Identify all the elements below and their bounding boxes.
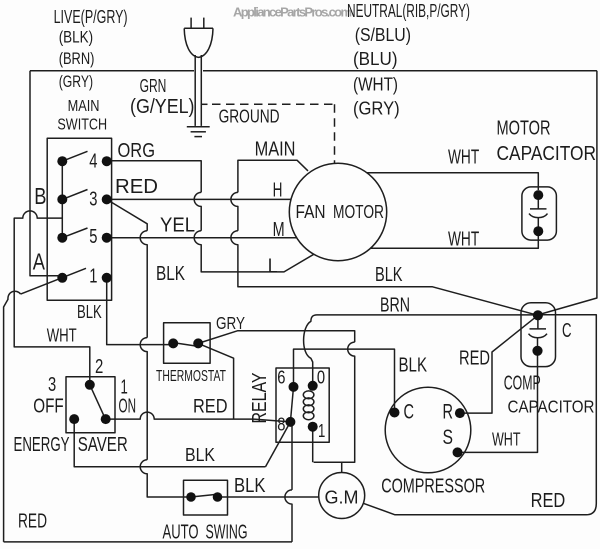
wire RED from switch 3 to motor H: [107, 198, 291, 200]
svg-text:(GRY): (GRY): [59, 72, 93, 91]
svg-text:B: B: [34, 183, 46, 209]
svg-text:BLK: BLK: [156, 263, 185, 285]
svg-text:NEUTRAL(RIB,P/GRY): NEUTRAL(RIB,P/GRY): [347, 1, 470, 21]
thermostat TH1 box: [164, 323, 211, 364]
node relay 0: [308, 381, 318, 391]
node thermostat left: [168, 338, 178, 348]
wire cord left conductor: [194, 55, 196, 126]
svg-text:YEL: YEL: [160, 214, 195, 236]
svg-text:G.M: G.M: [325, 487, 359, 508]
node switch B3: [57, 194, 67, 204]
svg-text:ORG: ORG: [118, 140, 156, 162]
wire MAIN lead from motor: [238, 160, 308, 192]
wire neutral tick: [201, 103, 207, 105]
svg-text:MOTOR: MOTOR: [333, 202, 384, 223]
svg-text:SWING: SWING: [206, 521, 248, 543]
capacitor C2 plates: [529, 319, 548, 347]
comp capacitor C2: [521, 303, 556, 367]
switch blade A (terminal 1) extended: [21, 268, 86, 294]
svg-text:(BLU): (BLU): [353, 49, 398, 69]
wire neutral dashed horizontal: [212, 103, 335, 105]
wire relay 8 riser hop over G.M wire: [285, 490, 292, 542]
svg-text:RED: RED: [193, 395, 228, 417]
wire RED compressor R to comp capacitor: [460, 315, 538, 413]
wire GRY node down to G.M: [341, 462, 343, 473]
svg-text:GROUND: GROUND: [219, 107, 280, 127]
node switch B4: [57, 156, 67, 166]
svg-text:MAIN: MAIN: [255, 138, 296, 160]
svg-text:BLK: BLK: [234, 475, 266, 497]
relay coil: [303, 391, 314, 420]
svg-text:RED: RED: [115, 176, 158, 198]
switch blade 4: [62, 151, 87, 161]
svg-text:COMP: COMP: [504, 372, 541, 394]
main switch S1 box: [47, 138, 111, 300]
node thermostat right: [193, 338, 203, 348]
svg-text:1: 1: [89, 266, 97, 288]
svg-text:3: 3: [48, 374, 56, 396]
node auto swing right: [213, 492, 223, 502]
svg-text:WHT: WHT: [448, 147, 479, 169]
relay RY1 box: [276, 368, 329, 442]
wire relay 8 riser down: [291, 423, 293, 490]
svg-text:BLK: BLK: [375, 264, 403, 286]
wire BLK from switch 3 diagonal: [107, 199, 148, 230]
node energy saver 1: [101, 414, 111, 424]
node auto swing left: [186, 492, 196, 502]
svg-text:MAIN: MAIN: [68, 98, 100, 115]
svg-text:S: S: [443, 426, 454, 449]
svg-text:BRN: BRN: [380, 294, 410, 316]
node relay 6: [289, 382, 299, 392]
node compressor C: [390, 408, 400, 418]
wire top border LIVE left segment: [30, 70, 194, 72]
node motor cap bottom: [533, 226, 543, 236]
compressor M2: [385, 387, 471, 473]
switch blade 5: [62, 228, 87, 238]
svg-text:RED: RED: [18, 510, 47, 532]
svg-text:(BLK): (BLK): [59, 27, 93, 46]
svg-text:2: 2: [95, 356, 103, 378]
capacitor C1 plates: [529, 199, 548, 228]
svg-text:H: H: [273, 179, 283, 201]
wire MAIN bus hop over RED: [231, 192, 238, 230]
motor capacitor C1: [522, 187, 557, 240]
switch blade 3: [62, 190, 87, 200]
wire RED right riser from comp capacitor to G.M: [363, 315, 596, 515]
svg-text:(BRN): (BRN): [59, 49, 95, 68]
svg-text:R: R: [443, 400, 454, 423]
node energy saver 2: [85, 380, 95, 390]
thermostat blade: [173, 343, 198, 347]
energy saver blade 2-1: [90, 385, 105, 418]
wire BLK from energy saver 3 (OFF): [74, 419, 265, 467]
svg-text:WHT: WHT: [448, 229, 479, 251]
wire ORG from switch 4: [107, 161, 202, 193]
svg-text:RED: RED: [531, 490, 566, 512]
wire BLK relay 6 to compressor C: [294, 349, 395, 412]
wire GRY from thermostat: [198, 331, 355, 344]
svg-text:CAPACITOR: CAPACITOR: [508, 396, 595, 416]
wire relay 1 to GRY node: [312, 427, 314, 463]
plug P1: [184, 18, 213, 58]
svg-text:C: C: [404, 400, 415, 423]
svg-text:GRN: GRN: [140, 76, 167, 97]
wire BLK riser hop over YEL: [140, 231, 147, 338]
fan motor M1: [289, 163, 386, 260]
wire ORG hop over RED: [194, 192, 201, 230]
wire YEL from switch 5 to motor M: [107, 237, 297, 239]
wire diagonal from relay 8: [266, 422, 291, 467]
node switch 5: [102, 233, 112, 243]
svg-text:(GRY): (GRY): [353, 99, 400, 119]
svg-text:BLK: BLK: [77, 302, 102, 323]
wire B to WHT (hop over left border): [14, 211, 90, 380]
node motor cap top: [533, 190, 543, 200]
svg-text:AppliancePartsPros.com: AppliancePartsPros.com: [233, 5, 352, 20]
svg-text:A: A: [33, 249, 46, 275]
wire GRY riser hop over BLK: [314, 342, 355, 462]
wire left border (LIVE down to switch A): [30, 71, 58, 276]
svg-text:THERMOSTAT: THERMOSTAT: [156, 367, 226, 385]
node switch 3: [102, 194, 112, 204]
wire MAIN bus hop over YEL then BLK to comp capacitor: [231, 231, 538, 316]
wire auto swing to G.M: [218, 496, 319, 498]
relay contact blade: [290, 387, 293, 422]
node relay 1: [308, 422, 318, 432]
svg-text:BLK: BLK: [399, 355, 428, 377]
svg-text:LIVE(P/GRY): LIVE(P/GRY): [54, 7, 128, 28]
wire RED from thermostat down to relay 8 wire: [198, 343, 233, 419]
node compressor S: [453, 447, 463, 457]
node energy saver 3: [69, 414, 79, 424]
ground: [187, 127, 210, 137]
svg-text:3: 3: [89, 188, 97, 210]
wire WHT motor bottom to capacitor: [371, 236, 539, 248]
svg-text:OFF: OFF: [33, 395, 63, 417]
wire ORG hop over YEL then to motor L: [194, 231, 314, 272]
svg-text:ENERGY: ENERGY: [14, 434, 70, 456]
svg-text:RED: RED: [459, 347, 490, 369]
wire A blade hop over WHT riser: [4, 291, 21, 542]
auto swing S3 box: [184, 480, 228, 515]
svg-text:(S/BLU): (S/BLU): [355, 25, 411, 45]
wire RED bottom to relay 8: [4, 541, 292, 543]
node compressor R: [455, 408, 465, 418]
wire BLK riser hop over thermostat wire: [140, 338, 147, 460]
svg-text:8: 8: [277, 415, 285, 436]
svg-text:SAVER: SAVER: [78, 434, 128, 456]
wire neutral dashed vertical to fan motor: [334, 104, 336, 163]
svg-text:4: 4: [89, 151, 97, 173]
node comp cap top: [533, 310, 543, 320]
svg-text:CAPACITOR: CAPACITOR: [497, 143, 597, 165]
node relay 8: [285, 417, 295, 427]
node switch B5: [57, 233, 67, 243]
svg-text:L: L: [268, 255, 278, 277]
svg-text:C: C: [562, 320, 572, 342]
svg-text:WHT: WHT: [47, 325, 77, 346]
svg-text:(WHT): (WHT): [353, 74, 398, 94]
wire top border LIVE right segment: [203, 70, 597, 72]
svg-text:MOTOR: MOTOR: [497, 118, 551, 140]
wire BLK riser hop over energy saver OFF wire, to auto swing: [140, 460, 186, 497]
svg-text:(G/YEL): (G/YEL): [130, 96, 195, 118]
svg-text:BLK: BLK: [185, 445, 215, 466]
svg-text:1: 1: [318, 421, 325, 442]
wire from energy saver 1 (ON) to relay 8: [106, 412, 291, 422]
wire right border (NEUTRAL down to comp capacitor): [541, 71, 597, 314]
svg-text:M: M: [273, 219, 285, 241]
svg-text:5: 5: [89, 226, 97, 248]
svg-text:SWITCH: SWITCH: [57, 116, 107, 134]
wire WHT motor top to capacitor: [367, 173, 539, 190]
node switch 4: [102, 156, 112, 166]
wire S riser from comp capacitor bottom: [462, 355, 538, 452]
svg-text:RELAY: RELAY: [248, 372, 271, 423]
svg-text:AUTO: AUTO: [163, 521, 199, 543]
auto swing blade: [191, 494, 218, 497]
svg-text:GRY: GRY: [216, 313, 245, 333]
svg-text:ON: ON: [119, 395, 137, 417]
svg-text:WHT: WHT: [492, 429, 521, 449]
svg-text:FAN: FAN: [296, 202, 326, 223]
wire BRN from comp capacitor to relay 0: [304, 315, 538, 381]
G.M motor: [319, 473, 365, 519]
node comp cap bottom: [532, 346, 542, 356]
energy saver S2 box: [66, 377, 115, 433]
wire BLK from switch 1 down to thermostat: [107, 278, 169, 345]
wire cord right conductor: [200, 55, 202, 126]
svg-text:0: 0: [317, 367, 325, 388]
wire B common riser: [61, 161, 63, 238]
svg-text:6: 6: [277, 367, 285, 388]
node switch A1: [57, 273, 67, 283]
node switch 1: [102, 273, 112, 283]
svg-text:COMPRESSOR: COMPRESSOR: [381, 476, 485, 498]
